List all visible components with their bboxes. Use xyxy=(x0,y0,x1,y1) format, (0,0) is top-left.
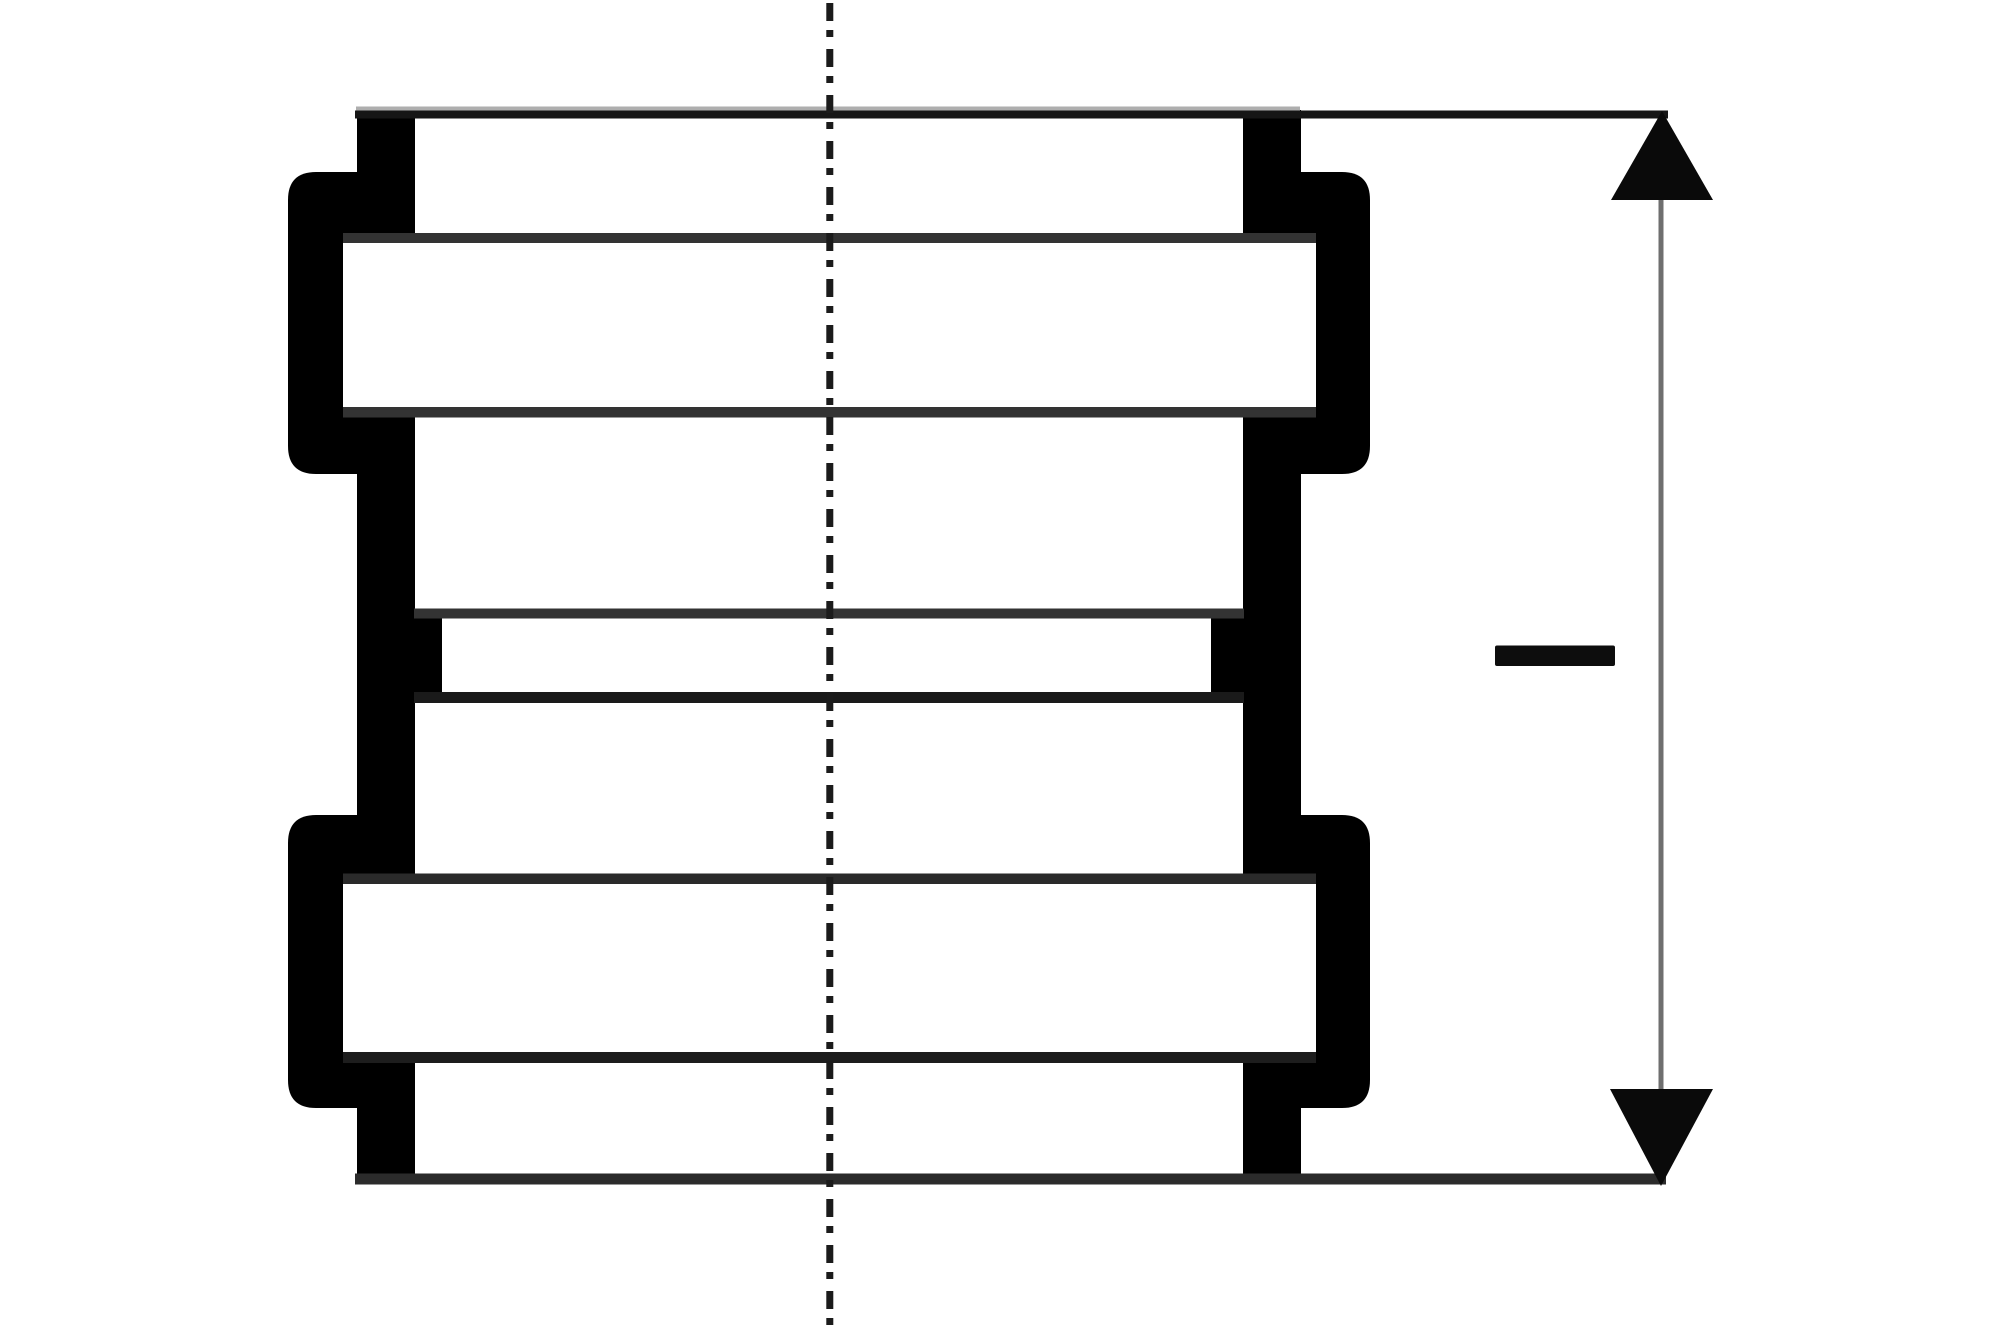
bore band F wide xyxy=(343,884,1316,1052)
bore band G xyxy=(415,1063,1243,1174)
dimension label dash xyxy=(1495,646,1615,667)
dimension line l xyxy=(1659,200,1664,1089)
top edge and extension line xyxy=(355,111,1668,119)
centre stop shoulder right xyxy=(1211,608,1243,703)
socket bead bottom-right xyxy=(1243,815,1370,1108)
socket bead top-left xyxy=(288,172,415,474)
bore line L2 xyxy=(343,233,1316,243)
bore line L5 xyxy=(414,692,1244,703)
coupling body left wall xyxy=(357,110,415,1182)
centre stop shoulder left xyxy=(415,608,442,703)
socket bead bottom-left xyxy=(288,815,415,1108)
bore band C xyxy=(415,418,1243,609)
socket bead top-right xyxy=(1243,172,1370,474)
bore line L6 xyxy=(343,874,1316,885)
bore band D narrow xyxy=(442,619,1211,693)
coupling body right wall xyxy=(1243,110,1301,1182)
bore line L3 xyxy=(343,407,1316,418)
bottom edge and extension line xyxy=(355,1174,1666,1185)
top edge grey fringe xyxy=(356,107,1300,112)
dimension arrowhead bottom xyxy=(1610,1089,1713,1186)
bore line L4 xyxy=(414,609,1244,619)
centerline dash-dot xyxy=(826,0,833,1333)
bore band A xyxy=(415,118,1243,233)
bore line L7 xyxy=(343,1052,1316,1063)
dimension arrowhead top xyxy=(1611,111,1713,200)
bore band E xyxy=(415,703,1243,874)
bore band B wide xyxy=(343,243,1316,407)
